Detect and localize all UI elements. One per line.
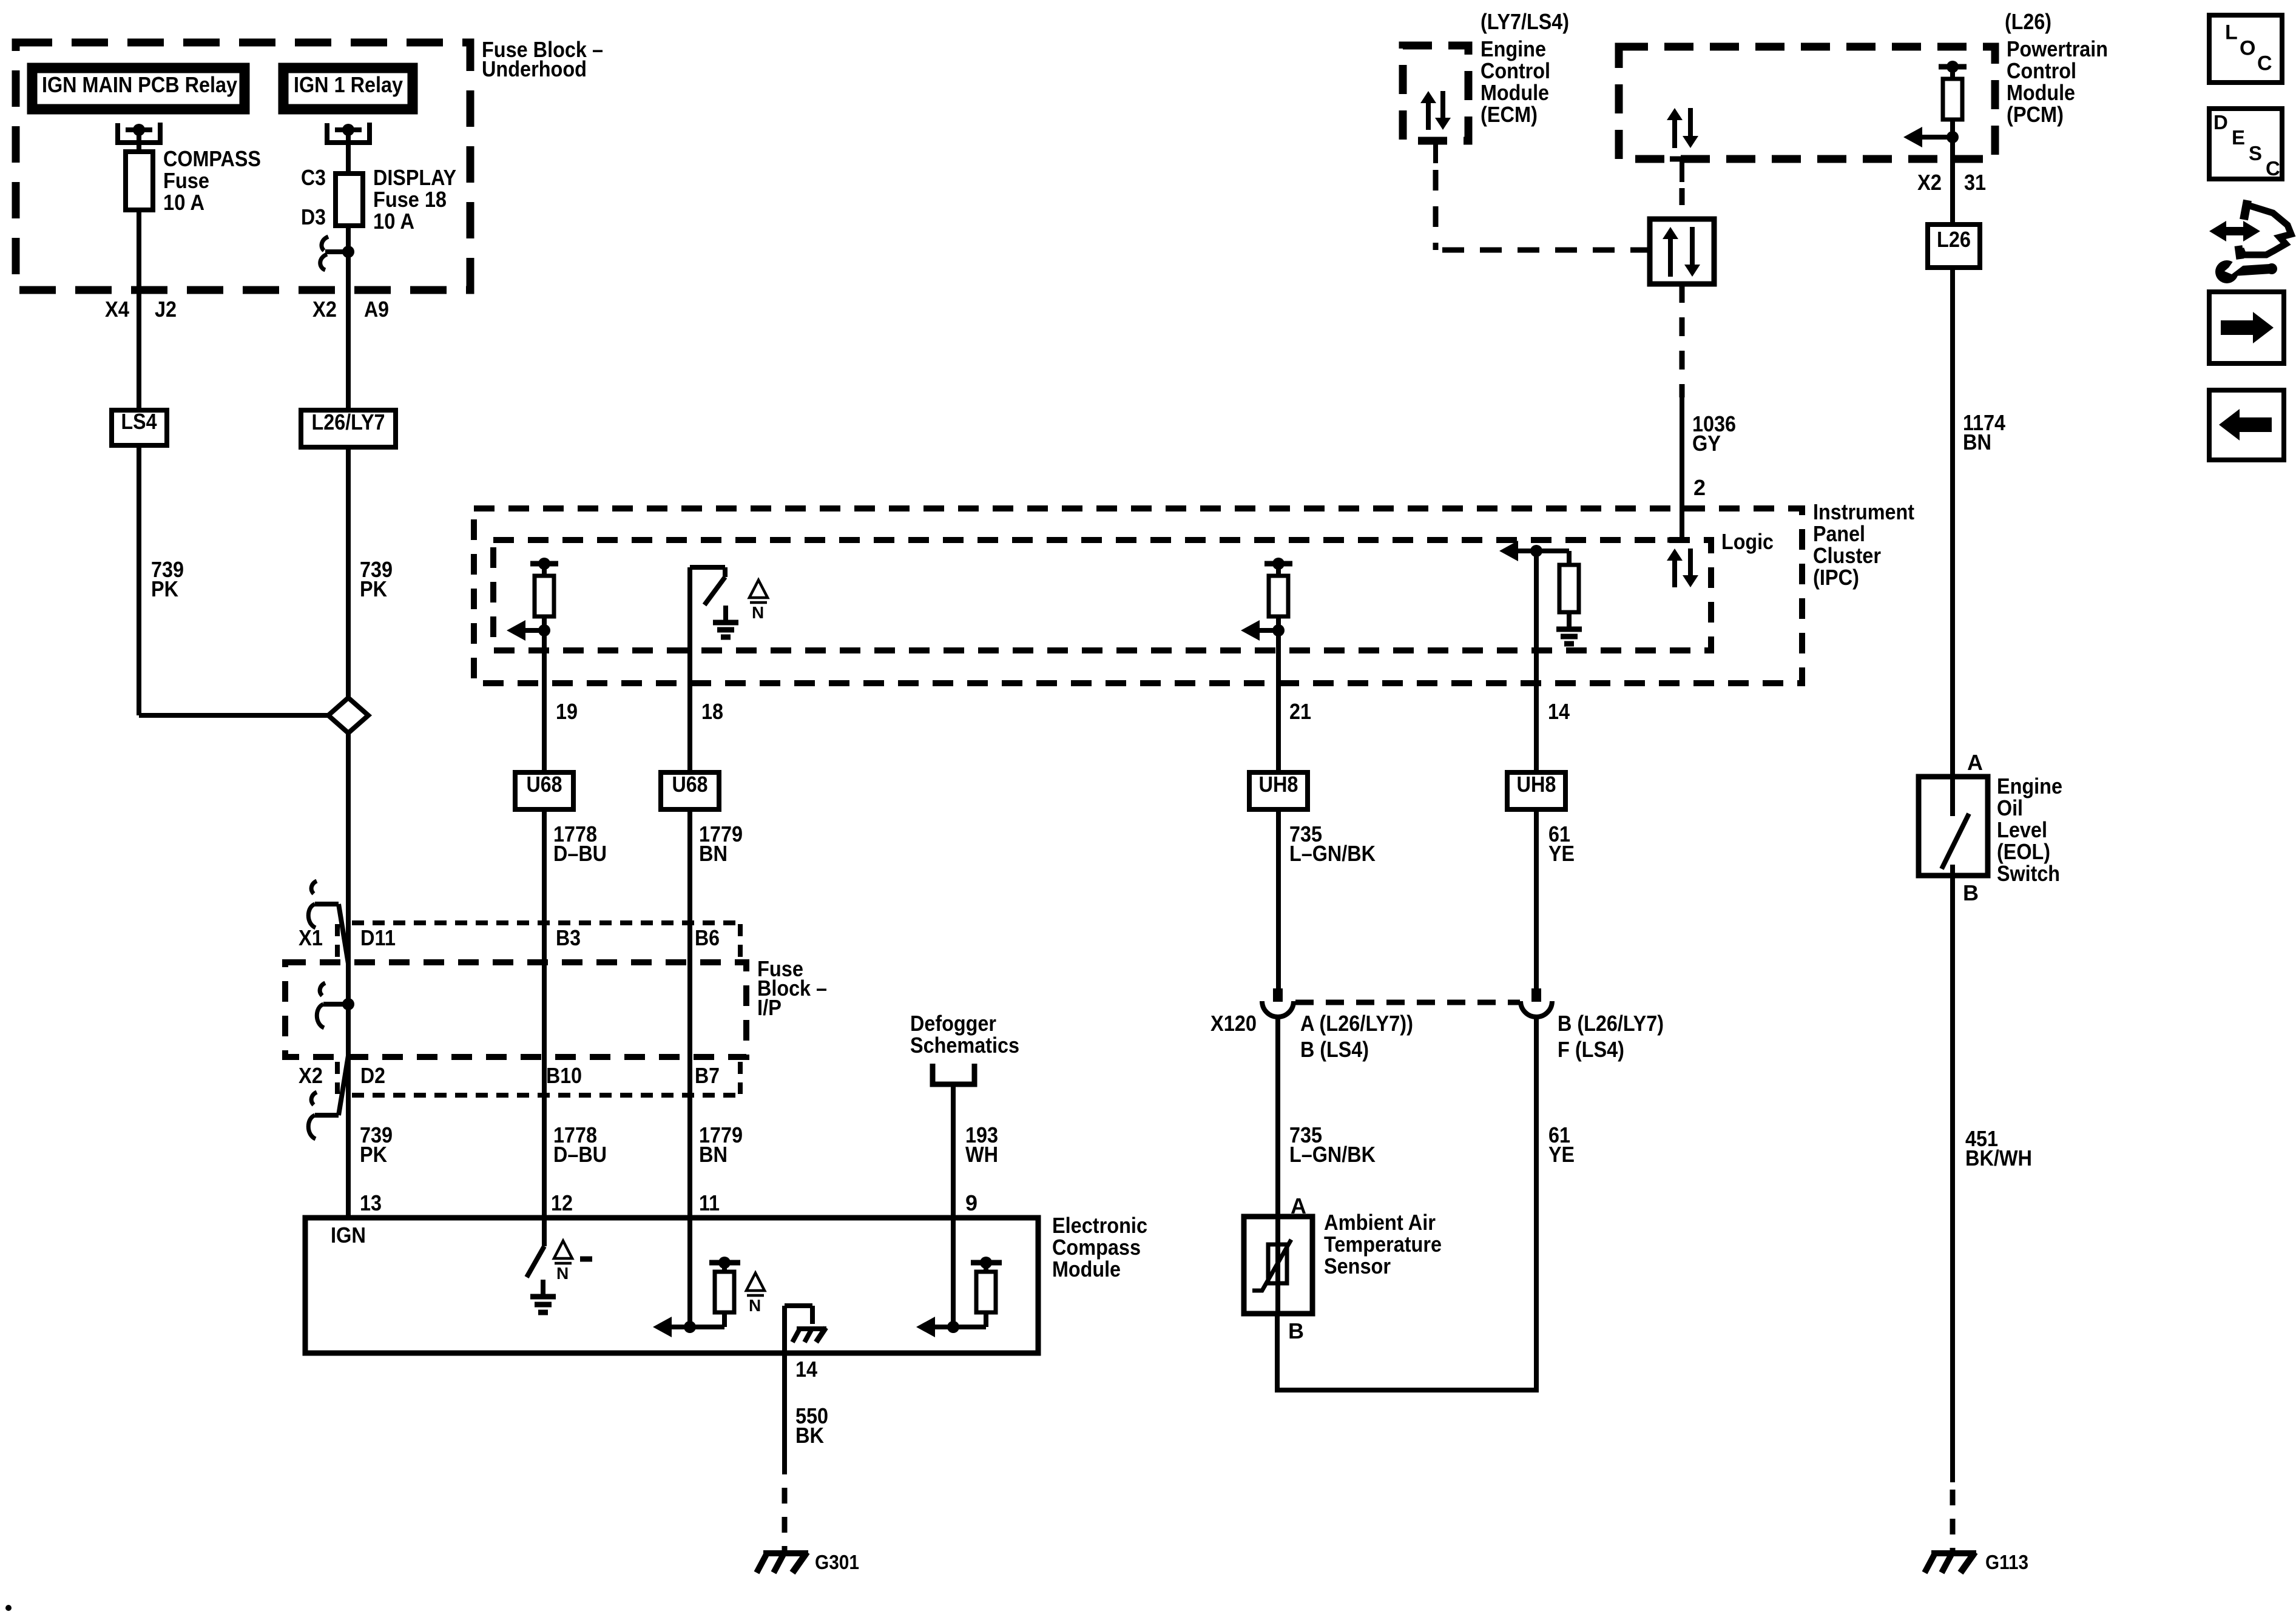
- svg-text:Underhood: Underhood: [482, 56, 587, 81]
- label IGN: [331, 1223, 366, 1247]
- svg-text:A (L26/LY7)): A (L26/LY7)): [1300, 1011, 1413, 1036]
- label 735 L-GN/BK upper: [1289, 822, 1376, 866]
- wire IPC pin 14 to UH8 right: [1534, 551, 1539, 772]
- svg-text:Schematics: Schematics: [910, 1033, 1019, 1058]
- compass module chassis ground hook pin 14: [785, 1306, 812, 1353]
- svg-text:B7: B7: [695, 1063, 720, 1088]
- defogger off-page bracket: [933, 1064, 974, 1084]
- svg-text:Fuse: Fuse: [163, 168, 209, 193]
- tag U68 right: [661, 772, 719, 809]
- svg-text:J2: J2: [155, 297, 177, 322]
- label Fuse Block - I/P: [757, 956, 827, 1020]
- svg-text:N: N: [752, 603, 764, 622]
- svg-text:WH: WH: [965, 1142, 998, 1167]
- wire to X2 A9: [346, 252, 351, 410]
- svg-text:PK: PK: [360, 1142, 387, 1167]
- PCM node and arrow: [1903, 127, 1959, 147]
- svg-text:Module: Module: [2007, 80, 2075, 105]
- connector line X1 row dotted: [337, 923, 740, 957]
- svg-text:19: 19: [556, 699, 578, 724]
- svg-text:X2: X2: [299, 1063, 323, 1088]
- IPC node and arrow pin 19: [507, 620, 550, 641]
- svg-text:B: B: [1963, 880, 1979, 905]
- pin 12 label: [551, 1190, 573, 1215]
- connector line X2 row dotted: [337, 1062, 740, 1095]
- engine tag LS4: [112, 409, 167, 445]
- svg-text:O: O: [2240, 37, 2255, 60]
- svg-text:Defogger: Defogger: [910, 1011, 996, 1036]
- svg-text:A: A: [1967, 750, 1983, 775]
- wire DISPLAY fuse down: [346, 226, 351, 252]
- PCM up down arrows: [1667, 108, 1698, 148]
- svg-text:IGN MAIN PCB Relay: IGN MAIN PCB Relay: [42, 72, 237, 97]
- wire to connector X2 D2: [346, 1004, 351, 1056]
- triangle N marker compass resistor: [746, 1273, 765, 1315]
- PCM internal resistor: [1939, 61, 1967, 137]
- svg-text:(PCM): (PCM): [2007, 102, 2064, 127]
- ambient air temperature sensor box: [1244, 1217, 1312, 1314]
- svg-text:(IPC): (IPC): [1813, 565, 1859, 590]
- wire 1174 BN: [1950, 268, 1955, 777]
- svg-text:BK/WH: BK/WH: [1965, 1146, 2032, 1170]
- label 739 PK right: [360, 557, 393, 601]
- wire 735 L-GN/BK upper: [1276, 809, 1281, 989]
- wire 735 L-GN/BK lower: [1275, 1019, 1280, 1217]
- label 1036 GY: [1692, 411, 1736, 456]
- icon back arrow box: [2209, 390, 2284, 460]
- svg-text:L26/LY7: L26/LY7: [312, 410, 385, 434]
- svg-text:X2: X2: [1917, 170, 1942, 195]
- label 739 PK left: [151, 557, 184, 601]
- wire relay K2 to DISPLAY fuse: [346, 130, 351, 174]
- wire 451 BK/WH: [1950, 876, 1955, 1482]
- wire 550 BK: [782, 1353, 787, 1474]
- svg-text:LS4: LS4: [121, 409, 157, 434]
- label COMPASS Fuse 10 A: [163, 146, 261, 215]
- icon forward arrow box: [2209, 292, 2284, 363]
- page dot: [5, 1605, 12, 1611]
- connector label X4 J2: [105, 297, 177, 322]
- wire 739 PK right: [346, 447, 351, 699]
- svg-text:Control: Control: [2007, 58, 2076, 83]
- svg-text:(LY7/LS4): (LY7/LS4): [1481, 9, 1569, 34]
- label 1174 BN: [1963, 410, 2005, 454]
- svg-text:B3: B3: [556, 925, 581, 950]
- label Defogger Schematics: [910, 1011, 1019, 1058]
- svg-text:D3: D3: [301, 204, 326, 229]
- svg-text:Oil: Oil: [1997, 795, 2023, 820]
- svg-text:14: 14: [1548, 699, 1570, 724]
- pin 9 label: [965, 1190, 977, 1215]
- svg-text:X4: X4: [105, 297, 129, 322]
- compass module switch pin 12: [527, 1218, 544, 1277]
- pin B label EOL: [1963, 880, 1979, 905]
- tag U68 left: [515, 772, 573, 809]
- thermistor RT1: [1252, 1217, 1291, 1314]
- label (L26): [2005, 9, 2051, 34]
- fuse F2 DISPLAY Fuse 18 10 A: [336, 174, 363, 226]
- wire 1779 BN: [687, 809, 692, 1218]
- svg-text:C: C: [2257, 52, 2272, 75]
- relay K2 IGN 1 Relay: [283, 68, 413, 109]
- compass module node arrow pin 9: [916, 1218, 986, 1337]
- IPC resistor on pin 19 circuit: [530, 558, 558, 630]
- label Fuse Block - Underhood: [482, 37, 603, 81]
- label (LY7/LS4): [1481, 9, 1569, 34]
- ground G113: [1925, 1552, 1976, 1573]
- label 193 WH: [965, 1122, 998, 1167]
- svg-text:Electronic: Electronic: [1052, 1213, 1147, 1238]
- wire IPC pin 21 to UH8 left: [1276, 630, 1281, 772]
- label Engine Oil Level EOL Switch: [1997, 774, 2062, 886]
- label 1778 D-BU upper: [553, 822, 607, 866]
- fuse F1 COMPASS Fuse 10 A: [126, 152, 153, 210]
- label G301: [815, 1551, 859, 1573]
- svg-text:PK: PK: [360, 576, 387, 601]
- svg-text:Cluster: Cluster: [1813, 543, 1881, 568]
- wire 1036 GY from logic: [1667, 284, 1687, 540]
- ECM up down arrows: [1420, 91, 1451, 130]
- pin B label ambient sensor: [1288, 1318, 1304, 1343]
- svg-text:Powertrain: Powertrain: [2007, 36, 2108, 61]
- svg-text:B (LS4): B (LS4): [1300, 1037, 1369, 1062]
- IPC node and arrow pin 21: [1241, 620, 1285, 641]
- svg-text:(EOL): (EOL): [1997, 839, 2050, 864]
- svg-text:Ambient Air: Ambient Air: [1324, 1210, 1436, 1235]
- connector X120 terminal A: [1262, 988, 1294, 1017]
- compass module pull-up resistor pin 9: [971, 1257, 1002, 1327]
- label 1778 D-BU lower: [553, 1122, 607, 1167]
- ECM stub and dashed wire to interconnect: [1425, 141, 1650, 250]
- relay contact symbol on DISPLAY feed: [320, 237, 354, 270]
- svg-text:UH8: UH8: [1259, 772, 1298, 797]
- IPC switch ground: [713, 606, 738, 637]
- label B (L26/LY7) F (LS4): [1558, 1011, 1664, 1062]
- svg-text:A9: A9: [364, 297, 389, 322]
- svg-text:BN: BN: [1963, 430, 1991, 454]
- label 61 YE upper: [1548, 822, 1575, 866]
- terminal inside fuse block I/P: [317, 983, 354, 1028]
- labels X1 D11 B3 B6: [299, 925, 720, 950]
- IPC resistor to ground pin 14 circuit: [1559, 551, 1579, 612]
- svg-text:14: 14: [795, 1357, 817, 1382]
- svg-text:18: 18: [701, 699, 723, 724]
- engine control module dashed box: [1403, 46, 1468, 141]
- svg-text:(L26): (L26): [2005, 9, 2051, 34]
- svg-text:C3: C3: [301, 165, 326, 190]
- icon DESC box: [2209, 109, 2282, 180]
- svg-text:Engine: Engine: [1997, 774, 2062, 798]
- triangle N marker IPC: [749, 580, 768, 622]
- ground G301: [757, 1552, 808, 1573]
- label Powertrain Control Module PCM: [2007, 36, 2108, 127]
- svg-text:PK: PK: [151, 576, 178, 601]
- svg-text:D: D: [2213, 111, 2228, 133]
- electronic compass module box: [305, 1218, 1038, 1353]
- svg-text:Logic: Logic: [1721, 529, 1774, 554]
- svg-text:Temperature: Temperature: [1324, 1232, 1442, 1257]
- pin A label EOL: [1967, 750, 1983, 775]
- tag UH8 right: [1507, 772, 1565, 809]
- wire 1778 D-BU: [542, 809, 547, 1218]
- wire 451 dashed to G113: [1950, 1490, 1956, 1551]
- svg-text:S: S: [2249, 142, 2262, 164]
- svg-text:Level: Level: [1997, 817, 2047, 842]
- svg-text:N: N: [749, 1296, 761, 1315]
- svg-text:U68: U68: [672, 772, 708, 797]
- svg-text:21: 21: [1289, 699, 1311, 724]
- splice S1 diamond: [328, 698, 368, 733]
- label G113: [1985, 1551, 2028, 1573]
- svg-text:IGN: IGN: [331, 1223, 366, 1247]
- wire COMPASS fuse to LS4 tag: [137, 210, 141, 410]
- wire sensor B to 61 YE: [1275, 1314, 1280, 1393]
- svg-text:Module: Module: [1481, 80, 1549, 105]
- svg-text:Panel: Panel: [1813, 521, 1865, 546]
- engine tag L26: [1928, 224, 1980, 268]
- svg-text:10 A: 10 A: [163, 190, 204, 215]
- wire 550 BK dashed to G301: [782, 1488, 788, 1551]
- connector X120 dashed line: [1295, 1000, 1520, 1005]
- svg-text:L: L: [2225, 21, 2238, 44]
- triangle N marker compass switch: [554, 1241, 592, 1283]
- wire IPC pin 19 to U68 left: [542, 630, 547, 772]
- svg-text:10 A: 10 A: [373, 209, 414, 234]
- label X2 31: [1917, 170, 1986, 195]
- IPC node and arrow pin 14: [1499, 541, 1569, 561]
- wire 739 PK to fuse block I/P: [346, 733, 351, 1218]
- svg-text:L–GN/BK: L–GN/BK: [1289, 1142, 1376, 1167]
- wire 193 WH: [951, 1084, 956, 1218]
- svg-text:D–BU: D–BU: [553, 841, 607, 866]
- pin 2 label: [1693, 475, 1706, 500]
- instrument panel cluster inner dashed box: [493, 540, 1711, 650]
- svg-text:Fuse 18: Fuse 18: [373, 187, 447, 212]
- logic up down arrows: [1667, 549, 1698, 587]
- svg-text:X1: X1: [299, 925, 323, 950]
- label Logic: [1721, 529, 1774, 554]
- compass module node arrow pin 11: [653, 1218, 724, 1337]
- svg-text:C: C: [2266, 157, 2280, 180]
- wire 739 PK to compass module pin 13: [346, 1114, 351, 1218]
- wire 61 YE upper: [1534, 809, 1539, 989]
- svg-text:Control: Control: [1481, 58, 1550, 83]
- svg-text:BN: BN: [699, 841, 728, 866]
- svg-text:E: E: [2232, 126, 2245, 149]
- svg-text:I/P: I/P: [757, 995, 782, 1020]
- wire 61 YE lower: [1277, 1019, 1539, 1390]
- svg-text:9: 9: [965, 1190, 977, 1215]
- label 735 L-GN/BK lower: [1289, 1122, 1376, 1167]
- wire through connector X1: [346, 966, 351, 1004]
- svg-text:(ECM): (ECM): [1481, 102, 1538, 127]
- connector X120 terminal B: [1521, 988, 1552, 1017]
- svg-text:2: 2: [1693, 475, 1706, 500]
- serial data interconnect box: [1650, 219, 1714, 284]
- svg-text:D11: D11: [360, 925, 396, 950]
- svg-text:Switch: Switch: [1997, 861, 2060, 886]
- svg-text:GY: GY: [1692, 431, 1721, 456]
- pin 18 label: [701, 699, 723, 724]
- instrument panel cluster outer dashed box: [474, 508, 1802, 683]
- pin A label ambient sensor: [1291, 1193, 1306, 1218]
- svg-text:U68: U68: [527, 772, 562, 797]
- svg-text:31: 31: [1964, 170, 1986, 195]
- terminal of IGN 1 relay: [327, 123, 370, 143]
- pin 14 label: [1548, 699, 1570, 724]
- label 451 BK/WH: [1965, 1126, 2032, 1170]
- engine tag L26/LY7: [301, 410, 396, 447]
- icon LOC box: [2209, 15, 2282, 83]
- label Electronic Compass Module: [1052, 1213, 1147, 1281]
- wire 739 PK left: [139, 445, 331, 715]
- connector label X2 A9: [312, 297, 389, 322]
- svg-text:G301: G301: [815, 1551, 859, 1573]
- fuse block underhood dashed box: [16, 42, 470, 290]
- svg-text:COMPASS: COMPASS: [163, 146, 261, 171]
- svg-text:Sensor: Sensor: [1324, 1254, 1391, 1278]
- wire IPC pin 18 to U68 right: [687, 650, 692, 772]
- pin 11 label: [699, 1190, 720, 1215]
- in-line terminal bottom of X2 D2: [308, 1056, 348, 1139]
- svg-text:11: 11: [699, 1190, 720, 1215]
- label 739 PK lower: [360, 1122, 393, 1167]
- IPC ground: [1556, 612, 1582, 644]
- svg-text:UH8: UH8: [1517, 772, 1556, 797]
- pin 14 label compass: [795, 1357, 817, 1382]
- svg-text:YE: YE: [1548, 1142, 1575, 1167]
- label C3 D3 fuse pins: [301, 165, 326, 229]
- svg-text:B6: B6: [695, 925, 720, 950]
- svg-text:D2: D2: [360, 1063, 385, 1088]
- svg-text:IGN 1 Relay: IGN 1 Relay: [294, 72, 403, 97]
- pin 13 label: [360, 1190, 382, 1215]
- label A (L26/LY7)) B (LS4): [1300, 1011, 1413, 1062]
- svg-text:Instrument: Instrument: [1813, 499, 1914, 524]
- PCM stub to serial data: [1670, 159, 1694, 219]
- svg-text:BN: BN: [699, 1142, 728, 1167]
- compass module chassis ground symbol: [792, 1328, 826, 1342]
- compass module switch ground: [530, 1280, 556, 1312]
- pin 21 label: [1289, 699, 1311, 724]
- in-line terminal top of X1 D11: [308, 881, 348, 964]
- svg-text:BK: BK: [795, 1423, 824, 1448]
- EOL switch contacts: [1942, 777, 1969, 876]
- IPC switch on pin 18 circuit: [690, 567, 725, 650]
- labels X2 D2 B10 B7: [299, 1063, 720, 1088]
- powertrain control module dashed box: [1619, 47, 1995, 159]
- wire PCM pin 31 out: [1950, 137, 1955, 224]
- compass module pull-up resistor pin 11: [709, 1257, 740, 1327]
- terminal of IGN MAIN PCB relay: [118, 123, 160, 143]
- wire relay K1 to COMPASS fuse: [137, 130, 141, 152]
- label DISPLAY Fuse 18 10 A: [373, 165, 456, 234]
- svg-text:B (L26/LY7): B (L26/LY7): [1558, 1011, 1664, 1036]
- svg-text:N: N: [556, 1264, 569, 1283]
- svg-text:L–GN/BK: L–GN/BK: [1289, 841, 1376, 866]
- pin 19 label: [556, 699, 578, 724]
- svg-text:YE: YE: [1548, 841, 1575, 866]
- IPC resistor on pin 21 circuit: [1264, 558, 1292, 630]
- label Ambient Air Temperature Sensor: [1324, 1210, 1442, 1278]
- svg-text:G113: G113: [1985, 1551, 2028, 1573]
- svg-text:X2: X2: [312, 297, 337, 322]
- icon wrench double arrow: [2209, 200, 2291, 283]
- svg-text:F (LS4): F (LS4): [1558, 1037, 1624, 1062]
- tag UH8 left: [1249, 772, 1308, 809]
- svg-text:12: 12: [551, 1190, 573, 1215]
- svg-text:B10: B10: [546, 1063, 582, 1088]
- label 1779 BN lower: [699, 1122, 743, 1167]
- relay K1 IGN MAIN PCB Relay: [32, 68, 245, 109]
- svg-text:B: B: [1288, 1318, 1304, 1343]
- svg-text:X120: X120: [1210, 1011, 1257, 1036]
- label X120: [1210, 1011, 1257, 1036]
- engine oil level switch box: [1919, 777, 1988, 876]
- svg-text:L26: L26: [1937, 227, 1971, 252]
- svg-text:13: 13: [360, 1190, 382, 1215]
- label 61 YE lower: [1548, 1122, 1575, 1167]
- svg-text:Engine: Engine: [1481, 36, 1546, 61]
- label 550 BK: [795, 1403, 828, 1448]
- fuse block I/P dashed box: [285, 962, 746, 1057]
- svg-text:Module: Module: [1052, 1257, 1121, 1281]
- label 1779 BN upper: [699, 822, 743, 866]
- svg-text:D–BU: D–BU: [553, 1142, 607, 1167]
- label Instrument Panel Cluster IPC: [1813, 499, 1914, 590]
- svg-text:Compass: Compass: [1052, 1235, 1141, 1260]
- svg-text:DISPLAY: DISPLAY: [373, 165, 456, 190]
- label Engine Control Module ECM: [1481, 36, 1550, 127]
